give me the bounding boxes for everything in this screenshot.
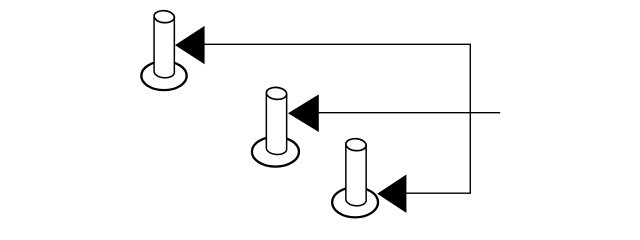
stud 2 flange — [252, 137, 299, 167]
stud 1 — [141, 10, 186, 90]
wire: middle leader from arrow A2 through bus to right end — [300, 112, 500, 114]
stud 2 — [252, 87, 299, 167]
stud 3 flange — [332, 187, 378, 217]
stud 1 flange — [141, 61, 186, 90]
stud 1 top ellipse — [154, 10, 175, 24]
wire: leader from arrow A1 right to vertical bus, down, left to arrow A3 — [190, 44, 470, 193]
stud 3 cylinder body — [346, 145, 366, 206]
stud 2 top ellipse — [266, 87, 287, 101]
arrow A3 pointing at stud 3 — [377, 175, 406, 213]
stud 1 cylinder body — [154, 17, 174, 78]
arrow A1 pointing at stud 1 — [175, 26, 205, 64]
arrow A2 pointing at stud 2 — [288, 94, 319, 132]
stud 3 top ellipse — [345, 138, 366, 152]
stud 3 — [332, 138, 378, 217]
stud 2 cylinder body — [266, 93, 286, 154]
